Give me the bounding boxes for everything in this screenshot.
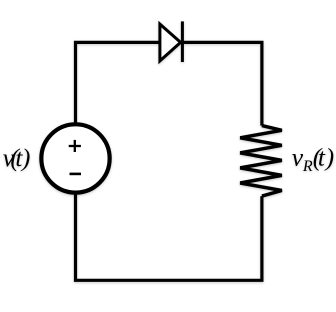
label vR(t) <box>292 143 334 175</box>
svg-text:): ) <box>324 143 335 172</box>
wire bottom loop: source bottom, down, across bottom, up right side to resistor <box>76 194 262 280</box>
minus sign inside source <box>70 173 82 176</box>
voltage source V1 circle <box>41 124 109 192</box>
svg-text:): ) <box>20 143 31 172</box>
label v(t) <box>3 143 31 172</box>
diode D1 triangle (anode) <box>160 24 181 61</box>
resistor R zigzag <box>240 126 282 197</box>
svg-text:R: R <box>302 158 313 175</box>
diode D1 cathode bar <box>181 21 184 62</box>
wire top-right segment from diode cathode to right corner down to resistor <box>182 42 262 125</box>
wire top-left segment with left vertical down to source <box>76 42 160 124</box>
plus sign inside source <box>69 140 81 152</box>
